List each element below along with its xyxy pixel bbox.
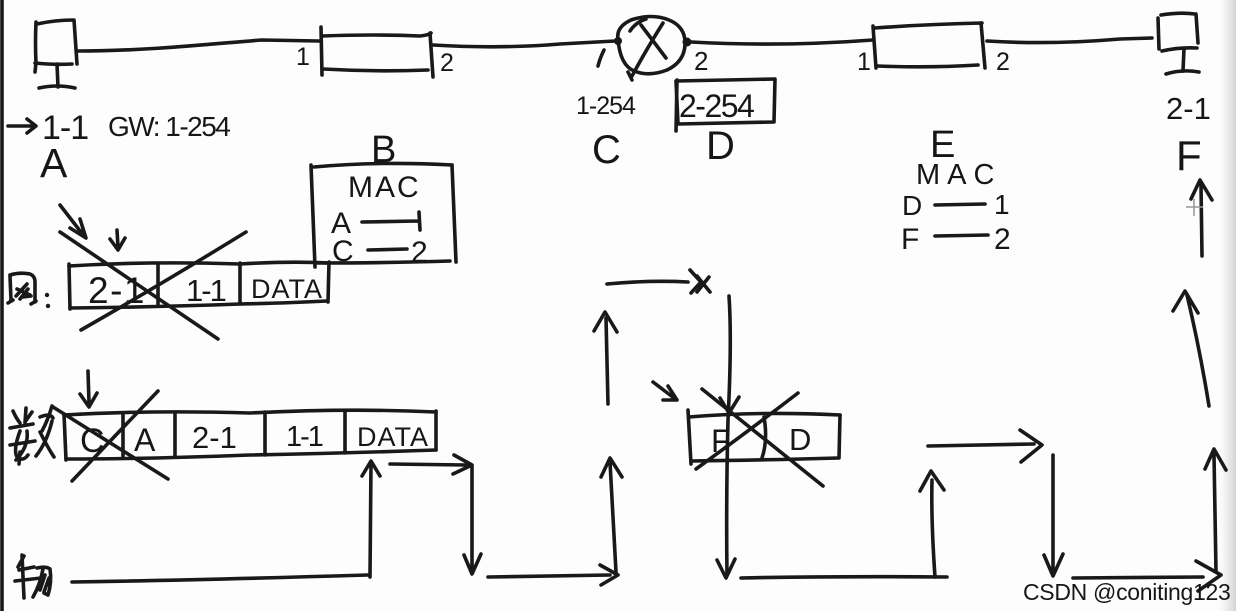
- svg-text:2-1: 2-1: [1166, 91, 1211, 126]
- data-link frame at router: F | D: [688, 410, 840, 464]
- physical wire segment after F frame: [741, 577, 947, 578]
- right edge vignette: [1216, 0, 1236, 611]
- host A monitor icon: [35, 20, 77, 88]
- node A label: [40, 140, 68, 186]
- label B above MAC table: [371, 129, 396, 171]
- svg-text:2: 2: [996, 48, 1010, 76]
- svg-text:A: A: [40, 140, 68, 186]
- router left port dot: [614, 37, 622, 45]
- CSDN watermark: [1023, 579, 1230, 605]
- switch E box: [873, 23, 985, 68]
- wire host A to switch B: [78, 40, 319, 51]
- wire left-edge video artifact line: [0, 0, 4, 611]
- up arrow physical to data-link (right edge): [1205, 449, 1226, 572]
- svg-text:D: D: [902, 190, 922, 221]
- svg-text:F: F: [1176, 132, 1202, 179]
- MAC list of switch E: [901, 159, 1011, 256]
- svg-text:MAC: MAC: [348, 171, 421, 204]
- diagonal arrow onto network frame: [60, 205, 86, 238]
- box with label 2-254 router right IP: [676, 79, 775, 131]
- wire switch B to router: [433, 41, 615, 47]
- svg-text:2-254: 2-254: [679, 88, 754, 124]
- svg-text:1: 1: [296, 43, 310, 71]
- svg-text:F: F: [901, 223, 919, 256]
- svg-text:DATA: DATA: [357, 422, 429, 452]
- right arrow from data-link frame: [390, 455, 472, 474]
- node F label: [1176, 132, 1202, 179]
- svg-text:C: C: [592, 128, 621, 172]
- router right port dot: [683, 38, 692, 47]
- svg-text:A: A: [134, 422, 156, 458]
- svg-text:DATA: DATA: [251, 274, 323, 304]
- node C label: [592, 128, 621, 172]
- svg-text:1-254: 1-254: [576, 92, 636, 120]
- label E above MAC list: [930, 124, 955, 166]
- svg-text:1-1: 1-1: [286, 421, 323, 453]
- physical wire segment to up arrow: [488, 565, 618, 585]
- data-link layer label 数: [10, 406, 54, 464]
- svg-text:D: D: [789, 422, 811, 457]
- svg-text:1: 1: [994, 189, 1010, 220]
- up arrow data-link to network (right edge): [1173, 291, 1209, 406]
- switch B box: [321, 27, 433, 77]
- svg-text:2: 2: [994, 223, 1011, 256]
- svg-text:MAC: MAC: [916, 159, 1001, 191]
- physical layer wire from 物: [72, 575, 368, 582]
- svg-text:F: F: [711, 423, 731, 459]
- physical layer label 物: [15, 555, 51, 598]
- up arrow network to host F (right edge): [1191, 180, 1212, 256]
- svg-text:D: D: [706, 124, 735, 168]
- wire router to switch E: [691, 40, 873, 44]
- port label 1 of switch B: [296, 43, 310, 71]
- network layer label 网:: [8, 273, 50, 308]
- small down arrow onto network frame: [110, 230, 125, 250]
- down wire after data-link frame: [464, 466, 481, 574]
- host F monitor icon: [1158, 13, 1199, 74]
- svg-text:2-1: 2-1: [192, 420, 237, 455]
- down arrow onto data-link frame: [80, 371, 97, 407]
- long down wire through F frame to physical: [717, 296, 739, 578]
- port label 2 of router: [694, 46, 708, 76]
- data-link frame row: C | A | 2-1 | 1-1 | DATA: [64, 410, 436, 460]
- up arrow physical to data-link (right section): [920, 471, 944, 577]
- MAC table of switch B: [311, 163, 456, 269]
- svg-text:C: C: [332, 235, 354, 268]
- port label 1 of switch E: [857, 48, 871, 76]
- port label 1 of router: [598, 50, 604, 66]
- label 1-254 router left IP: [576, 92, 636, 120]
- svg-text:2: 2: [694, 46, 708, 76]
- X cross over C cell of data-link frame: [53, 391, 168, 481]
- up arrow physical to data-link (left of F frame): [601, 458, 622, 572]
- blocked arrow at network layer with X: [607, 270, 710, 293]
- svg-text:2: 2: [440, 49, 454, 77]
- node D label: [706, 124, 735, 168]
- svg-text:2: 2: [411, 236, 428, 269]
- up arrow data-link to network (left of F frame): [594, 312, 617, 404]
- port label 2 of switch B: [440, 49, 454, 77]
- mouse crosshair cursor: [1186, 199, 1203, 216]
- gateway label GW: 1-254: [108, 111, 230, 142]
- small diagonal arrow onto F frame: [653, 382, 677, 400]
- up arrow from physical line to DATA cell: [362, 461, 380, 577]
- X cross over network frame: [60, 232, 246, 339]
- arrow and IP 1-1 of host A: [8, 109, 88, 147]
- svg-text:1-1: 1-1: [186, 273, 226, 308]
- svg-text:2-1: 2-1: [88, 270, 146, 311]
- svg-text:1: 1: [857, 48, 871, 76]
- physical wire to right edge: [1073, 561, 1221, 591]
- network frame row: 2-1 | 1-1 | DATA: [69, 262, 329, 311]
- wire switch E to host F: [987, 38, 1152, 43]
- right arrow at data-link level: [928, 430, 1042, 462]
- down wire to physical (right section): [1044, 455, 1063, 576]
- router circle with X: [618, 17, 685, 81]
- IP label 2-1 of host F: [1166, 91, 1211, 126]
- X cross over F cell: [696, 389, 823, 486]
- svg-text:CSDN @coniting123: CSDN @coniting123: [1023, 579, 1230, 605]
- svg-text:GW: 1-254: GW: 1-254: [108, 111, 230, 142]
- port label 2 of switch E: [996, 48, 1010, 76]
